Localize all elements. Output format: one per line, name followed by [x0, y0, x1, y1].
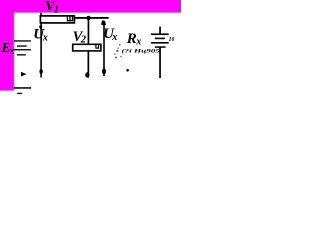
white page background	[0, 0, 181, 99]
battery B plate short	[155, 46, 166, 48]
blob on arrow line bottom	[102, 68, 106, 74]
battery Ex plate (long)	[14, 40, 31, 41]
svg-text:10: 10	[169, 37, 175, 43]
label Ux (right)	[103, 26, 117, 43]
arrowhead down (Ux left)	[39, 26, 43, 30]
battery B stub (top)	[159, 27, 161, 34]
svg-text:x: x	[42, 32, 48, 43]
battery Ex plate (short)	[17, 54, 26, 55]
svg-text:x: x	[135, 37, 141, 48]
battery B wire down	[159, 47, 161, 78]
arrowhead up	[101, 20, 106, 25]
wiper ticks inside V2 box	[95, 45, 99, 48]
bottom-left wire (long)	[14, 87, 31, 89]
arrowhead right (Ex branch)	[21, 72, 27, 77]
resistor V2 (middle box)	[73, 44, 101, 51]
bottom-left plate (short)	[17, 93, 22, 94]
svg-text:x: x	[9, 47, 15, 57]
label Ux (left)	[33, 26, 48, 43]
arrowhead down at branch bottom	[85, 72, 89, 77]
battery B plate long	[151, 42, 169, 44]
watermark dots	[114, 44, 122, 59]
svg-text:x: x	[111, 32, 117, 43]
resistor V1 (top box)	[40, 16, 74, 23]
top wire	[75, 17, 109, 19]
svg-text:(?і Нц905: (?і Нц905	[122, 48, 161, 55]
junction blob on left wire bottom	[39, 69, 42, 74]
svg-text:R: R	[126, 31, 137, 47]
svg-text:1: 1	[54, 4, 59, 15]
battery Ex plate (short)	[17, 45, 27, 46]
label V2	[73, 29, 87, 46]
label Rx	[126, 31, 142, 48]
node dot (isolated)	[126, 69, 129, 72]
wiper ticks inside V1 box	[67, 16, 73, 20]
svg-text:2: 2	[80, 35, 87, 46]
label Ex	[1, 40, 15, 56]
label V1	[45, 0, 59, 15]
battery B plate short	[155, 38, 165, 40]
wire stub above resistor V1 left end	[40, 13, 42, 16]
wire: box V2 down	[88, 51, 90, 78]
junction node on top wire	[86, 16, 90, 20]
battery Ex plate (long)	[14, 49, 31, 50]
magenta transparent margin (top strip + left column)	[0, 0, 185, 91]
wire: junction down to box V2	[88, 19, 90, 45]
Ux measuring arrow line (right of V2)	[103, 21, 105, 76]
battery B plate long	[151, 33, 169, 35]
left vertical wire under V1 box	[40, 23, 42, 78]
